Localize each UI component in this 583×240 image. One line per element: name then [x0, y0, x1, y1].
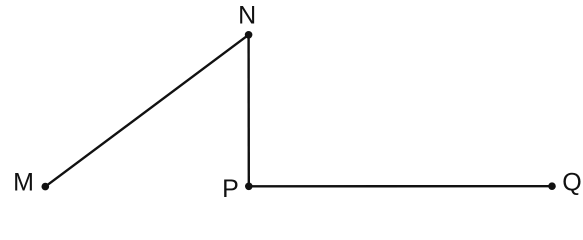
svg-text:N: N — [238, 2, 256, 30]
svg-text:P: P — [222, 175, 239, 203]
svg-text:M: M — [13, 168, 34, 196]
svg-text:Q: Q — [562, 169, 581, 197]
